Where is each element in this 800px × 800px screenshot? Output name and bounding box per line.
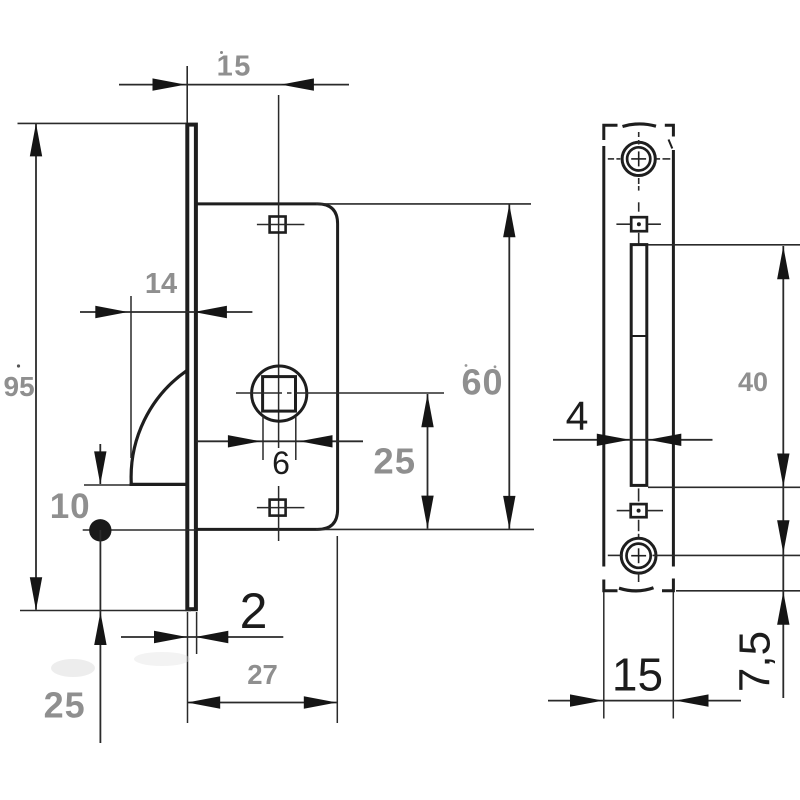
svg-text:4: 4 [566, 393, 589, 439]
vertical centerline [278, 95, 280, 448]
dimension 15 (top) [119, 84, 349, 86]
dimension 6 (spindle square) [197, 440, 364, 442]
plate right edge [672, 150, 675, 567]
top square hole [631, 217, 647, 231]
svg-text:15: 15 [612, 649, 663, 701]
dimension 25 (spindle to bottom) [427, 394, 429, 529]
svg-text:10: 10 [50, 487, 91, 526]
top screw square hole [270, 217, 286, 233]
plate bottom-left dashed corner [604, 580, 618, 591]
dimension 4 (slot width) [553, 439, 713, 441]
top screw hole [622, 142, 655, 175]
dimension 27 [187, 702, 337, 704]
svg-text:6: 6 [272, 445, 290, 481]
plate top-right dashed corner [665, 125, 674, 136]
body bottom edge extension right [316, 528, 534, 530]
dimension 40 (slot length) [648, 244, 800, 246]
svg-text:40: 40 [738, 367, 768, 397]
dimension 25 (bottom left) [99, 530, 101, 743]
svg-text:25: 25 [373, 441, 416, 482]
reference dot [89, 519, 111, 541]
svg-text:60: 60 [461, 361, 503, 402]
bottom screw hole [621, 538, 656, 573]
svg-text:25: 25 [44, 685, 86, 726]
plate bottom break arc [619, 588, 654, 591]
faceplate [187, 125, 196, 610]
plate bottom-right dashed corner [662, 579, 673, 591]
slot break line [631, 335, 647, 337]
bottom screw square hole [270, 500, 286, 516]
dimension 7,5 (hole center to plate end) [653, 554, 800, 556]
top hole crosshairs [608, 158, 614, 160]
svg-text:27: 27 [247, 659, 278, 690]
plate top-left dashed corner [604, 125, 618, 140]
svg-text:95: 95 [4, 371, 35, 402]
dimension 10 [99, 444, 101, 484]
body bottom edge extension left through dot [83, 529, 196, 531]
dimension 15 (plate width) [548, 700, 741, 702]
dimension 2 (faceplate thickness) [121, 636, 283, 638]
svg-text:7,5: 7,5 [731, 631, 780, 692]
dimension 60 [508, 205, 510, 529]
bottom square hole [631, 504, 647, 517]
slot [631, 245, 647, 486]
scan smudges [51, 659, 95, 677]
latch bolt [131, 371, 186, 484]
svg-text:2: 2 [240, 583, 268, 639]
svg-text:14: 14 [145, 268, 177, 300]
spindle square hole [263, 377, 296, 412]
lock body outline [197, 204, 338, 530]
dimension 95 (left) [35, 124, 37, 610]
spindle horizontal centerline [236, 392, 282, 394]
body top edge extension to 60-dim [316, 203, 531, 205]
plate top break arc [623, 124, 657, 127]
spindle circle [252, 366, 307, 421]
dimension 14 [80, 311, 252, 313]
plate left edge [602, 146, 605, 567]
svg-text:15: 15 [217, 50, 252, 82]
